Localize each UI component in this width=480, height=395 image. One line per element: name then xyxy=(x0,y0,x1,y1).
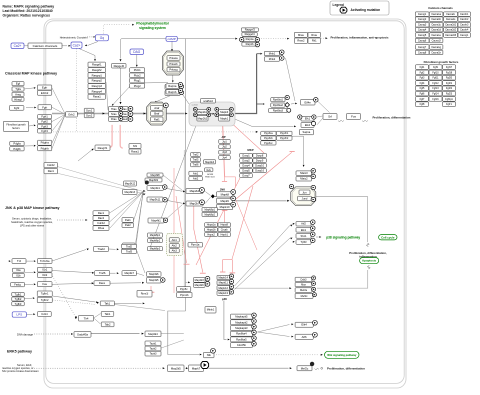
svg-text:Pak1: Pak1 xyxy=(125,218,131,222)
svg-text:DNA damage: DNA damage xyxy=(17,332,33,336)
svg-text:Fibroblast growth: Fibroblast growth xyxy=(6,124,26,127)
svg-text:Tnfrsf1a: Tnfrsf1a xyxy=(40,259,50,263)
svg-text:Cacna1g: Cacna1g xyxy=(431,46,441,49)
svg-text:Cryab: Cryab xyxy=(221,228,228,232)
svg-text:Tnf: Tnf xyxy=(17,259,21,263)
svg-text:Fgfr1: Fgfr1 xyxy=(446,103,452,106)
svg-text:Dusp1: Dusp1 xyxy=(242,153,250,157)
svg-text:Mef2c: Mef2c xyxy=(301,366,309,370)
svg-text:Cacna2d2: Cacna2d2 xyxy=(445,29,457,32)
svg-text:Rit1: Rit1 xyxy=(312,39,317,43)
svg-text:Fos: Fos xyxy=(351,115,356,119)
svg-text:Calcium channels: Calcium channels xyxy=(33,44,58,48)
svg-text:Rasa1: Rasa1 xyxy=(93,95,101,99)
svg-text:Hspa2: Hspa2 xyxy=(207,232,215,236)
svg-text:Rasgrp2: Rasgrp2 xyxy=(92,79,103,83)
svg-text:Mapk3: Mapk3 xyxy=(220,110,228,114)
svg-text:Organism: Rattus norvegicus: Organism: Rattus norvegicus xyxy=(3,13,51,17)
svg-text:Hspa8: Hspa8 xyxy=(221,223,229,227)
svg-text:Cacnb2: Cacnb2 xyxy=(460,18,469,21)
svg-text:Dusp10: Dusp10 xyxy=(255,163,264,167)
svg-text:Hspa1b: Hspa1b xyxy=(207,228,216,232)
svg-text:Rps6ka1: Rps6ka1 xyxy=(273,98,284,102)
svg-text:Mnk1: Mnk1 xyxy=(269,51,276,55)
svg-text:Apoptosis: Apoptosis xyxy=(362,259,377,263)
svg-text:Hspb1: Hspb1 xyxy=(221,232,229,236)
svg-text:Fgf16: Fgf16 xyxy=(432,98,439,101)
svg-text:Plcb1: Plcb1 xyxy=(134,68,141,72)
svg-text:Rap1a: Rap1a xyxy=(246,37,254,41)
svg-text:Cacna1d: Cacna1d xyxy=(431,29,441,32)
svg-text:Pdgfra: Pdgfra xyxy=(41,141,50,145)
svg-text:Egf: Egf xyxy=(16,82,20,86)
svg-text:Map3k9: Map3k9 xyxy=(149,178,159,182)
svg-text:Cacng7: Cacng7 xyxy=(418,46,427,49)
svg-text:Rps6ka2: Rps6ka2 xyxy=(273,103,284,107)
svg-text:Prkaca: Prkaca xyxy=(169,56,178,60)
svg-text:Ppm1l: Ppm1l xyxy=(141,292,149,296)
svg-text:Mapkapk5: Mapkapk5 xyxy=(235,315,248,319)
svg-text:Mapkapk2: Mapkapk2 xyxy=(235,320,248,324)
svg-text:Fgfr3: Fgfr3 xyxy=(41,124,48,128)
svg-text:Cdc42: Cdc42 xyxy=(47,163,55,167)
svg-text:Rapgef2: Rapgef2 xyxy=(114,64,125,68)
svg-text:Fgf7: Fgf7 xyxy=(420,98,425,101)
svg-text:Srk tyrosine kinase downstream: Srk tyrosine kinase downstream xyxy=(2,369,39,373)
svg-text:Jip3: Jip3 xyxy=(222,150,227,154)
svg-text:Map2k1: Map2k1 xyxy=(198,110,208,114)
svg-text:Cacng5: Cacng5 xyxy=(418,34,427,37)
svg-text:Fgf12: Fgf12 xyxy=(432,82,439,85)
svg-text:Rasgrp4: Rasgrp4 xyxy=(92,89,103,93)
svg-text:HGK GLK: HGK GLK xyxy=(205,177,215,179)
svg-text:Dusp9: Dusp9 xyxy=(256,158,264,162)
svg-text:Tgfbr1: Tgfbr1 xyxy=(41,292,49,296)
svg-text:Rasgrp3: Rasgrp3 xyxy=(92,84,103,88)
svg-text:Rras: Rras xyxy=(111,117,117,121)
svg-text:Fgfr2: Fgfr2 xyxy=(41,120,48,124)
svg-text:Fgf22: Fgf22 xyxy=(446,87,453,90)
svg-text:Cacna1f: Cacna1f xyxy=(432,39,441,42)
svg-text:cAMP: cAMP xyxy=(168,37,176,41)
svg-text:Tab2: Tab2 xyxy=(105,322,111,326)
svg-text:Map3k8: Map3k8 xyxy=(150,173,160,177)
svg-text:Cacng2: Cacng2 xyxy=(418,18,427,21)
svg-text:Cacna1h: Cacna1h xyxy=(431,51,441,54)
svg-text:Map2k2: Map2k2 xyxy=(198,116,208,120)
svg-text:Cacna2d1: Cacna2d1 xyxy=(445,24,457,27)
svg-text:Rapgef3: Rapgef3 xyxy=(245,28,256,32)
svg-text:Fgf2: Fgf2 xyxy=(420,71,425,74)
svg-text:Activating mutation: Activating mutation xyxy=(351,8,381,12)
svg-text:Fgf9: Fgf9 xyxy=(433,66,438,69)
svg-text:ERK5 pathway: ERK5 pathway xyxy=(7,350,32,354)
svg-text:Ppp3r1: Ppp3r1 xyxy=(280,131,289,135)
svg-text:Egfr: Egfr xyxy=(42,86,47,90)
svg-text:Mapk1: Mapk1 xyxy=(220,116,228,120)
svg-text:Cacna1b: Cacna1b xyxy=(431,18,441,21)
svg-text:Cacna1e: Cacna1e xyxy=(431,34,441,37)
svg-text:Rapgef4: Rapgef4 xyxy=(245,32,256,36)
svg-text:Mapk11: Mapk11 xyxy=(219,281,229,285)
svg-text:Mnk2: Mnk2 xyxy=(269,57,276,61)
svg-text:Ppp5c: Ppp5c xyxy=(180,287,188,291)
svg-text:Sos1: Sos1 xyxy=(86,109,93,113)
svg-text:scaffold: scaffold xyxy=(203,99,213,103)
svg-text:Map3k11: Map3k11 xyxy=(150,198,161,202)
svg-text:JNK: JNK xyxy=(220,187,225,191)
svg-text:Rasa1: Rasa1 xyxy=(131,150,139,154)
svg-text:Wnt signaling pathway: Wnt signaling pathway xyxy=(327,353,357,357)
svg-text:Hbegf: Hbegf xyxy=(14,97,22,101)
svg-text:Rras2: Rras2 xyxy=(297,39,305,43)
svg-text:Mknk1: Mknk1 xyxy=(207,308,215,312)
svg-text:Akt2: Akt2 xyxy=(172,244,178,248)
svg-text:Cacna2d3: Cacna2d3 xyxy=(445,34,457,37)
svg-text:MKP: MKP xyxy=(247,148,253,152)
svg-text:Mapk8: Mapk8 xyxy=(221,192,230,196)
svg-text:Fgf5: Fgf5 xyxy=(420,87,425,90)
svg-text:Nras: Nras xyxy=(111,112,117,116)
svg-text:p38 signaling pathway: p38 signaling pathway xyxy=(326,235,360,239)
svg-text:Pdgfrb: Pdgfrb xyxy=(41,146,50,150)
svg-text:Fgf8: Fgf8 xyxy=(420,103,425,106)
svg-text:Akt2: Akt2 xyxy=(193,177,199,181)
svg-text:Cacng8: Cacng8 xyxy=(418,51,427,54)
svg-text:LPS and other stress: LPS and other stress xyxy=(20,224,45,228)
svg-text:Rap1b: Rap1b xyxy=(246,42,254,46)
svg-text:scaffold: scaffold xyxy=(192,105,198,107)
svg-text:Rps6ka5: Rps6ka5 xyxy=(236,337,247,341)
svg-text:Map2k3: Map2k3 xyxy=(195,278,205,282)
svg-text:Akt1: Akt1 xyxy=(193,171,199,175)
svg-text:Pdgfa: Pdgfa xyxy=(13,142,21,146)
svg-text:Prkacg: Prkacg xyxy=(169,68,178,72)
svg-text:Fibroblast growth factors: Fibroblast growth factors xyxy=(424,60,459,64)
svg-text:Il1a: Il1a xyxy=(16,268,21,272)
svg-text:Tgfb2: Tgfb2 xyxy=(15,297,22,301)
svg-text:Rap1a: Rap1a xyxy=(168,84,177,88)
svg-text:Rasgrf1: Rasgrf1 xyxy=(98,146,108,150)
svg-text:Mapk8ip1: Mapk8ip1 xyxy=(150,234,161,237)
svg-text:Tab1: Tab1 xyxy=(105,312,111,316)
svg-text:Fgfr1: Fgfr1 xyxy=(41,115,48,119)
svg-text:Ppm1a: Ppm1a xyxy=(191,243,200,247)
svg-text:Rps6ka3: Rps6ka3 xyxy=(273,108,284,112)
svg-text:Mapk13: Mapk13 xyxy=(218,291,228,295)
svg-text:Sos2: Sos2 xyxy=(86,114,93,118)
svg-text:Map2k6: Map2k6 xyxy=(195,283,205,287)
svg-text:Tlr4: Tlr4 xyxy=(84,316,89,320)
svg-text:Jip4: Jip4 xyxy=(222,155,227,159)
svg-text:Rap1b: Rap1b xyxy=(168,90,177,94)
svg-text:Taok1: Taok1 xyxy=(150,341,157,345)
svg-text:Erbb2: Erbb2 xyxy=(41,91,49,95)
svg-text:Rhoa: Rhoa xyxy=(98,226,105,230)
svg-text:Fas: Fas xyxy=(42,282,47,286)
svg-text:factors: factors xyxy=(12,127,20,130)
svg-text:Elk1: Elk1 xyxy=(305,117,311,121)
svg-text:Ca2+: Ca2+ xyxy=(14,44,22,48)
svg-text:Traf3: Traf3 xyxy=(126,249,133,253)
svg-text:GCKR: GCKR xyxy=(207,174,214,176)
svg-text:Traf6: Traf6 xyxy=(193,163,199,167)
svg-text:Cd14: Cd14 xyxy=(41,312,48,316)
svg-text:Fgfr: Fgfr xyxy=(42,105,47,109)
svg-text:Cacna1a: Cacna1a xyxy=(431,13,441,16)
svg-text:Fgf13: Fgf13 xyxy=(432,87,439,90)
svg-text:Map2k4: Map2k4 xyxy=(190,189,200,193)
svg-text:Traf5: Traf5 xyxy=(193,158,199,162)
svg-text:Cacnb1: Cacnb1 xyxy=(460,13,469,16)
svg-text:Mapk8ip3: Mapk8ip3 xyxy=(150,248,161,251)
svg-text:Tak1: Tak1 xyxy=(104,301,110,305)
svg-text:Sap1a: Sap1a xyxy=(303,130,311,134)
svg-text:Il1r2: Il1r2 xyxy=(42,273,48,277)
svg-text:Dusp2: Dusp2 xyxy=(242,158,250,162)
svg-text:Daxx: Daxx xyxy=(99,281,106,285)
svg-text:Dusp4: Dusp4 xyxy=(242,163,250,167)
svg-text:Ppp3r2: Ppp3r2 xyxy=(280,136,289,140)
svg-text:Fgf3: Fgf3 xyxy=(420,77,425,80)
svg-text:Mapkapk3: Mapkapk3 xyxy=(235,326,248,330)
svg-text:Mapk9: Mapk9 xyxy=(220,199,229,203)
svg-text:Ppm1b: Ppm1b xyxy=(180,293,189,297)
svg-text:Ppp3ca: Ppp3ca xyxy=(264,131,273,135)
svg-text:Cdc25b: Cdc25b xyxy=(237,343,247,347)
svg-text:Map4k1: Map4k1 xyxy=(151,219,161,223)
svg-text:Faslg: Faslg xyxy=(14,283,21,287)
svg-text:Elk4: Elk4 xyxy=(301,323,307,327)
svg-text:Gq: Gq xyxy=(100,36,105,40)
svg-text:Cacna1s: Cacna1s xyxy=(446,18,456,21)
svg-text:signaling system: signaling system xyxy=(139,26,166,30)
svg-text:Nlk: Nlk xyxy=(207,353,212,357)
svg-text:Proliferation, differentiation: Proliferation, differentiation xyxy=(373,115,411,119)
svg-text:Plcg2: Plcg2 xyxy=(134,84,141,88)
svg-text:Raf1: Raf1 xyxy=(154,117,160,121)
svg-text:Fgf4: Fgf4 xyxy=(420,82,425,85)
svg-text:Rasgrf1: Rasgrf1 xyxy=(92,63,102,67)
svg-text:Max: Max xyxy=(301,283,307,287)
svg-text:Fgf14: Fgf14 xyxy=(432,93,439,96)
svg-text:Dusp7: Dusp7 xyxy=(242,174,250,178)
svg-text:Heterotrimeric G-protein: Heterotrimeric G-protein xyxy=(60,35,88,39)
svg-text:Araf: Araf xyxy=(154,106,159,110)
svg-text:Map3k12: Map3k12 xyxy=(125,181,136,185)
svg-text:Fgf17: Fgf17 xyxy=(446,66,453,69)
svg-text:Tgfbr2: Tgfbr2 xyxy=(41,298,49,302)
svg-text:Prkacb: Prkacb xyxy=(169,62,178,66)
svg-text:LPS: LPS xyxy=(16,313,22,317)
svg-text:Gck: Gck xyxy=(206,168,211,172)
svg-text:Ppp3cb: Ppp3cb xyxy=(264,136,273,140)
svg-text:Ca2+: Ca2+ xyxy=(73,43,81,47)
svg-text:Last Modified: 20210121103840: Last Modified: 20210121103840 xyxy=(3,9,53,13)
svg-text:Map3k5: Map3k5 xyxy=(149,278,159,282)
svg-text:Fgf6: Fgf6 xyxy=(420,93,425,96)
svg-text:Map3k13: Map3k13 xyxy=(125,190,136,194)
svg-text:Traf2: Traf2 xyxy=(126,244,133,248)
svg-text:Rac1: Rac1 xyxy=(48,169,55,173)
svg-text:Cacng1: Cacng1 xyxy=(418,13,427,16)
svg-text:Eif4e: Eif4e xyxy=(305,100,312,104)
svg-text:Il1r1: Il1r1 xyxy=(42,268,48,272)
svg-text:Cacng4: Cacng4 xyxy=(418,29,427,32)
svg-text:Mapk14: Mapk14 xyxy=(218,276,228,280)
svg-text:Fgf10: Fgf10 xyxy=(432,71,439,74)
svg-text:Tgfb1: Tgfb1 xyxy=(15,292,22,296)
svg-text:Traf6: Traf6 xyxy=(99,271,106,275)
svg-text:Hras: Hras xyxy=(111,107,117,111)
svg-text:Atf2: Atf2 xyxy=(301,222,306,226)
svg-text:Grb2: Grb2 xyxy=(68,112,75,116)
svg-text:Akt3: Akt3 xyxy=(172,249,178,253)
svg-text:Jip2: Jip2 xyxy=(222,145,227,149)
svg-text:Cacnb3: Cacnb3 xyxy=(460,24,469,27)
svg-text:Mapk10: Mapk10 xyxy=(220,205,230,209)
svg-text:Tradd: Tradd xyxy=(97,247,105,251)
svg-text:Map3k7: Map3k7 xyxy=(124,271,134,275)
svg-text:Nf1: Nf1 xyxy=(133,144,138,148)
svg-text:Akt1: Akt1 xyxy=(172,238,178,242)
svg-text:Jund: Jund xyxy=(302,197,308,201)
svg-text:Plcb2: Plcb2 xyxy=(134,73,141,77)
svg-text:Mapk8ip1: Mapk8ip1 xyxy=(205,208,216,211)
svg-text:Dusp8: Dusp8 xyxy=(256,153,264,157)
svg-text:Jip1: Jip1 xyxy=(222,139,227,143)
svg-text:Areg: Areg xyxy=(15,92,21,96)
svg-text:Rras: Rras xyxy=(311,33,317,37)
svg-text:Name: MAPK signaling pathway: Name: MAPK signaling pathway xyxy=(3,5,55,9)
svg-text:Mapk7: Mapk7 xyxy=(192,366,201,370)
svg-text:Pdgfb: Pdgfb xyxy=(13,147,21,151)
svg-text:Map3k1: Map3k1 xyxy=(150,186,160,190)
svg-text:Tp53: Tp53 xyxy=(300,240,307,244)
svg-text:Rasgrp1: Rasgrp1 xyxy=(92,73,103,77)
svg-text:Fgf2: Fgf2 xyxy=(14,106,20,110)
svg-text:Mapk8ip2: Mapk8ip2 xyxy=(205,213,216,216)
svg-text:Fgfr4: Fgfr4 xyxy=(41,129,48,133)
svg-text:Proliferation, inflammation, a: Proliferation, inflammation, anti-apopto… xyxy=(331,36,389,40)
svg-text:Cdc42: Cdc42 xyxy=(97,221,105,225)
svg-text:Fgf11: Fgf11 xyxy=(432,77,439,80)
svg-text:Rps6ka4: Rps6ka4 xyxy=(236,332,247,336)
svg-text:Tgfa: Tgfa xyxy=(15,87,21,91)
svg-text:Mras: Mras xyxy=(298,33,305,37)
svg-text:Legend: Legend xyxy=(333,3,344,7)
svg-text:Map4k4: Map4k4 xyxy=(205,160,215,164)
svg-text:Tgfb3: Tgfb3 xyxy=(15,302,22,306)
svg-text:Dusp5: Dusp5 xyxy=(242,168,250,172)
svg-text:Mef2c: Mef2c xyxy=(301,294,309,298)
svg-text:Jun: Jun xyxy=(302,190,307,194)
svg-text:Nfatc3: Nfatc3 xyxy=(300,171,308,175)
svg-text:JIP: JIP xyxy=(221,135,225,139)
svg-text:Shc1: Shc1 xyxy=(300,234,307,238)
svg-text:Rac2: Rac2 xyxy=(98,216,105,220)
svg-text:Rasgrf2: Rasgrf2 xyxy=(92,68,102,72)
svg-text:Fgf18: Fgf18 xyxy=(446,71,453,74)
svg-text:Gadd45a: Gadd45a xyxy=(77,332,88,336)
svg-text:heatshock, reactive oxygen spe: heatshock, reactive oxygen species, xyxy=(11,220,53,224)
svg-text:Proliferation, differentiation: Proliferation, differentiation xyxy=(327,367,365,371)
svg-text:Hspa1a: Hspa1a xyxy=(207,223,216,227)
svg-text:Cacng6: Cacng6 xyxy=(418,39,427,42)
svg-text:Cell cycle: Cell cycle xyxy=(381,235,395,239)
svg-text:Mapk8ip2: Mapk8ip2 xyxy=(150,239,161,242)
svg-text:Calcium channels: Calcium channels xyxy=(428,6,453,10)
svg-text:Cacnb4: Cacnb4 xyxy=(460,29,469,32)
svg-text:Plcg1: Plcg1 xyxy=(134,79,141,83)
svg-text:Srf: Srf xyxy=(328,115,332,119)
svg-text:Fgf23: Fgf23 xyxy=(446,93,453,96)
svg-text:Fgfbp1: Fgfbp1 xyxy=(445,98,453,101)
svg-text:Fgf1: Fgf1 xyxy=(420,66,425,69)
svg-text:Pak2: Pak2 xyxy=(125,223,131,227)
svg-text:Cacng1: Cacng1 xyxy=(460,34,469,37)
svg-text:Braf: Braf xyxy=(154,112,159,116)
svg-text:Mef2a: Mef2a xyxy=(300,288,308,292)
svg-text:Ddit3: Ddit3 xyxy=(301,277,308,281)
svg-text:Cacng3: Cacng3 xyxy=(418,24,427,27)
svg-text:Mapk12: Mapk12 xyxy=(218,286,228,290)
svg-text:Nfatc2: Nfatc2 xyxy=(300,177,308,181)
svg-text:Elk1: Elk1 xyxy=(301,228,307,232)
svg-text:Classical MAP kinase pathway: Classical MAP kinase pathway xyxy=(5,72,57,76)
svg-text:Map2k5: Map2k5 xyxy=(171,366,181,370)
svg-text:Elk4: Elk4 xyxy=(305,123,311,127)
svg-text:Fgf20: Fgf20 xyxy=(446,77,453,80)
svg-text:JNK & p38 MAP kinase pathway: JNK & p38 MAP kinase pathway xyxy=(5,206,59,210)
svg-text:Traf2: Traf2 xyxy=(193,152,199,156)
svg-text:Ppp3cc: Ppp3cc xyxy=(264,141,273,145)
svg-text:Dusp16: Dusp16 xyxy=(255,168,264,172)
svg-text:Taok3: Taok3 xyxy=(150,352,157,356)
svg-text:DAG: DAG xyxy=(133,50,140,54)
svg-text:Fgf21: Fgf21 xyxy=(446,82,453,85)
svg-text:Rac1: Rac1 xyxy=(98,211,105,215)
svg-text:Taok2: Taok2 xyxy=(150,346,157,350)
svg-text:Map3k6: Map3k6 xyxy=(149,272,159,276)
svg-text:Atf6: Atf6 xyxy=(302,335,307,339)
svg-text:Cacna1i: Cacna1i xyxy=(446,13,455,16)
svg-text:Map2k7: Map2k7 xyxy=(190,202,200,206)
svg-text:p38: p38 xyxy=(222,297,227,301)
svg-text:Map3k4: Map3k4 xyxy=(148,332,158,336)
svg-text:Serum, cytotoxic drugs, irradi: Serum, cytotoxic drugs, irradiation, xyxy=(12,217,52,221)
svg-text:Cacna1c: Cacna1c xyxy=(431,24,441,27)
svg-text:Il1b: Il1b xyxy=(16,273,21,277)
